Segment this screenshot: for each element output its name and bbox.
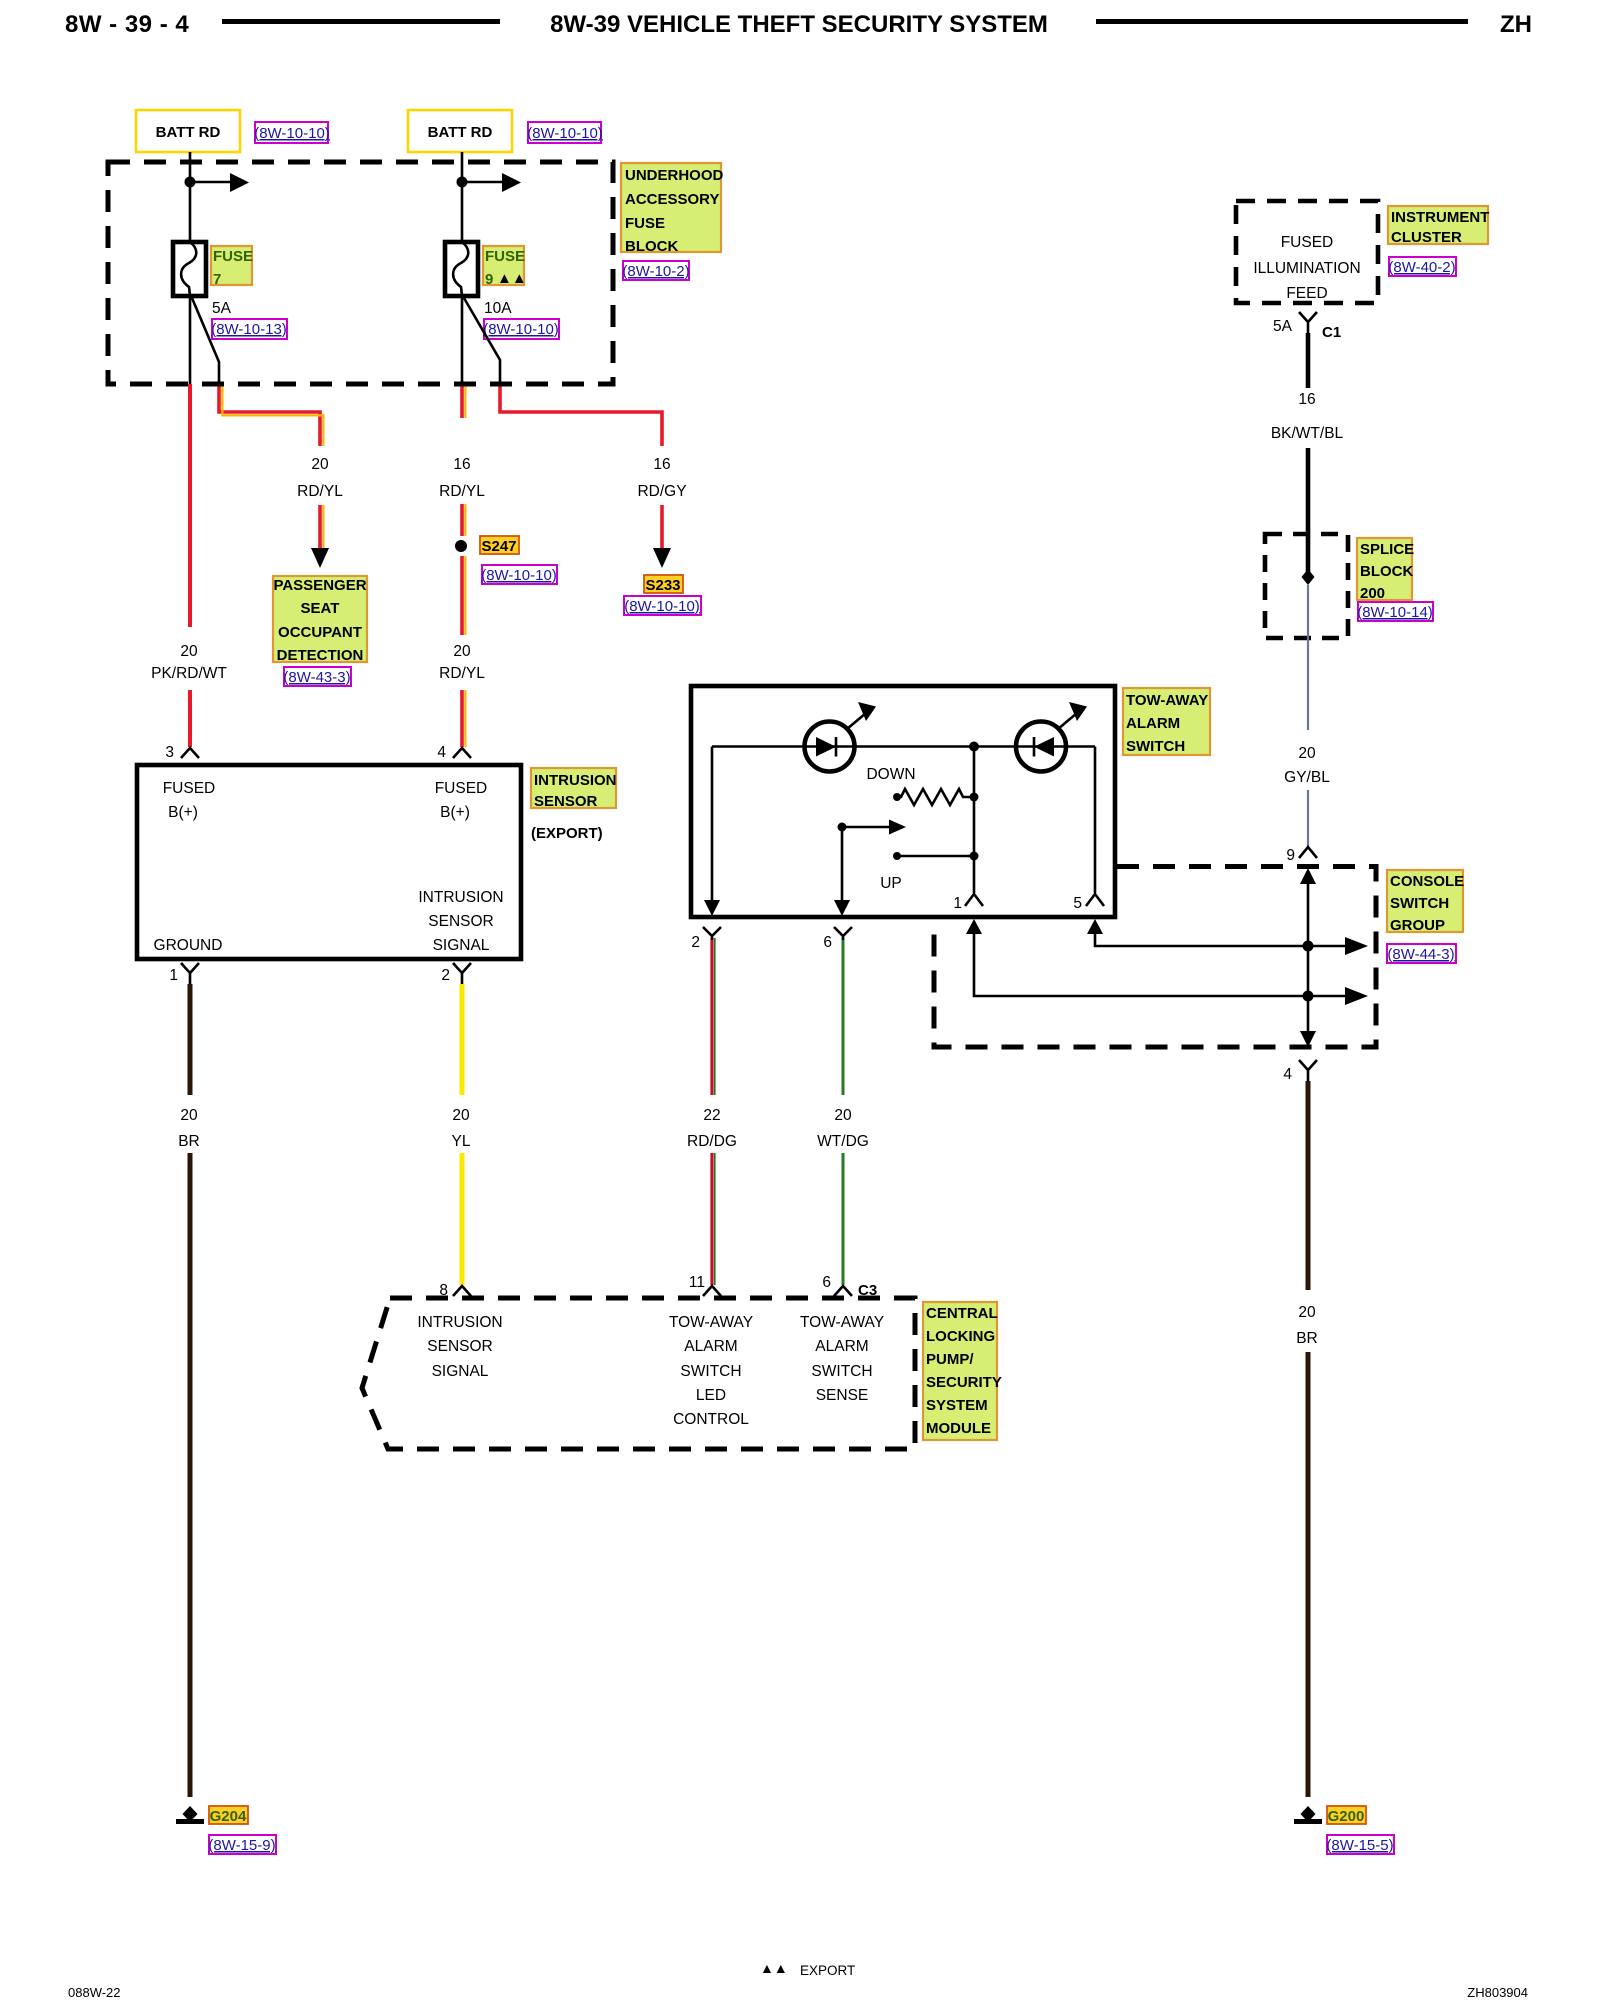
svg-text:BR: BR <box>178 1133 200 1150</box>
svg-text:9: 9 <box>485 271 493 288</box>
svg-text:7: 7 <box>213 271 221 288</box>
wire pin 9 entry arrow <box>1300 868 1316 1047</box>
svg-text:INTRUSION: INTRUSION <box>534 772 617 789</box>
svg-text:SENSOR: SENSOR <box>427 1338 492 1355</box>
op tow-away alarm switch S1 (box) <box>691 686 1115 917</box>
svg-text:UP: UP <box>880 875 902 892</box>
svg-text:4: 4 <box>1283 1066 1292 1083</box>
svg-text:088W-22: 088W-22 <box>68 1985 121 2000</box>
splice S247 junction dot <box>455 540 467 552</box>
svg-text:SWITCH: SWITCH <box>680 1363 741 1380</box>
junction dot at right batt wire <box>457 177 468 188</box>
node BATT RD (right feed) <box>408 110 512 152</box>
svg-text:CLUSTER: CLUSTER <box>1391 229 1462 246</box>
svg-text:CENTRAL: CENTRAL <box>926 1305 998 1322</box>
svg-text:GY/BL: GY/BL <box>1284 769 1330 786</box>
svg-text:(8W-10-14): (8W-10-14) <box>1357 604 1433 621</box>
node BATT RD (left feed) <box>136 110 240 152</box>
junction at bus and pin1 leg <box>969 742 979 752</box>
svg-text:SEAT: SEAT <box>301 600 340 617</box>
wire 20 BR (intrusion sensor ground to G204) <box>178 984 200 1797</box>
svg-text:PUMP/: PUMP/ <box>926 1351 974 1368</box>
svg-text:LOCKING: LOCKING <box>926 1328 995 1345</box>
svg-text:SIGNAL: SIGNAL <box>432 1363 489 1380</box>
svg-text:4: 4 <box>437 744 446 761</box>
pin label TOW-AWAY ALARM SWITCH LED CONTROL (module pin 11) <box>669 1314 753 1428</box>
wire 16 RD/GY (fuse 9 branch to splice S233) <box>500 384 687 568</box>
svg-text:LED: LED <box>696 1387 726 1404</box>
page header <box>65 11 1532 38</box>
svg-text:S233: S233 <box>645 577 680 594</box>
op intrusion sensor U1 (box) <box>137 765 521 959</box>
wire 22 RD/DG (tow-away pin 2 to module pin 11) <box>687 938 737 1285</box>
splice block 200 (dashed box) <box>1265 534 1348 638</box>
pin 11 connector (module) <box>689 1274 721 1296</box>
junction dot pin9/pin1 wire <box>1303 991 1314 1002</box>
svg-text:ZH: ZH <box>1500 11 1532 38</box>
svg-text:GROUND: GROUND <box>154 937 223 954</box>
svg-text:SECURITY: SECURITY <box>926 1374 1002 1391</box>
label FUSE 9 (export marker) <box>483 246 527 288</box>
link 8W-10-2 <box>622 261 689 280</box>
link 8W-10-10 (fuse 9) <box>483 319 559 339</box>
svg-text:PK/RD/WT: PK/RD/WT <box>151 665 227 682</box>
link 8W-10-14 <box>1357 602 1433 621</box>
svg-text:22: 22 <box>703 1107 720 1124</box>
ground G204 symbol <box>176 1806 204 1824</box>
svg-text:ZH803904: ZH803904 <box>1467 1985 1528 2000</box>
wire from right BATT RD into fuse block <box>461 152 464 242</box>
wire fuse 7 output branch <box>192 298 219 384</box>
wire 20 BR (console switch group to G200) <box>1296 1081 1318 1797</box>
pin label INTRUSION SENSOR SIGNAL (module pin 8) <box>417 1314 502 1380</box>
svg-text:SWITCH: SWITCH <box>1390 895 1449 912</box>
svg-text:INTRUSION: INTRUSION <box>418 889 503 906</box>
svg-text:SYSTEM: SYSTEM <box>926 1397 988 1414</box>
wire 16 RD/YL (fuse 9 to splice S247) <box>439 384 485 536</box>
svg-text:YL: YL <box>452 1133 471 1150</box>
svg-text:(EXPORT): (EXPORT) <box>531 825 603 842</box>
svg-text:5: 5 <box>1073 895 1082 912</box>
arrow branch (right batt feed to other circuits) <box>462 173 521 192</box>
svg-text:8W - 39 - 4: 8W - 39 - 4 <box>65 11 189 38</box>
wire 20 GY/BL (splice block to console switch group pin 9) <box>1284 585 1330 846</box>
svg-text:MODULE: MODULE <box>926 1420 991 1437</box>
junction dot at left batt wire <box>185 177 196 188</box>
svg-text:B(+): B(+) <box>168 804 198 821</box>
pin 1 connector (intrusion sensor) <box>169 963 199 984</box>
svg-text:▲▲: ▲▲ <box>760 1960 788 1976</box>
node FUSED ILLUMINATION FEED (instrument cluster, dashed box) <box>1236 201 1378 303</box>
pin 6 connector C3 (module) <box>822 1274 877 1299</box>
svg-text:FUSE: FUSE <box>485 248 525 265</box>
svg-text:UNDERHOOD: UNDERHOOD <box>625 167 724 184</box>
wire 20 RD/YL (S247 to intrusion sensor pin 4) <box>439 556 485 747</box>
svg-text:ILLUMINATION: ILLUMINATION <box>1253 260 1360 277</box>
link 8W-44-3 <box>1387 944 1456 963</box>
pin label TOW-AWAY ALARM SWITCH SENSE (module pin 6) <box>800 1314 884 1404</box>
pin 8 connector (module) <box>439 1282 471 1299</box>
splice junction diamond <box>1302 569 1315 585</box>
svg-text:BLOCK: BLOCK <box>625 238 678 255</box>
pin 1 connector (tow-away switch) <box>953 894 983 912</box>
underhood accessory fuse block border over wires <box>108 162 613 384</box>
svg-text:20: 20 <box>834 1107 852 1124</box>
pin 9 connector (console switch group) <box>1286 847 1317 864</box>
svg-text:6: 6 <box>823 934 832 951</box>
svg-text:INTRUSION: INTRUSION <box>417 1314 502 1331</box>
svg-text:(8W-10-10): (8W-10-10) <box>483 321 559 338</box>
svg-text:S247: S247 <box>481 538 516 555</box>
pin 5A connector C1 (instrument cluster) <box>1273 312 1341 341</box>
LED D2 (up indicator) <box>1016 702 1087 772</box>
console switch group (dashed enclosure) <box>934 867 1376 1048</box>
svg-text:20: 20 <box>453 643 471 660</box>
wire leg to pin 5 <box>1094 747 1097 894</box>
op central locking pump / security system module (dashed box) <box>362 1298 915 1449</box>
svg-text:3: 3 <box>165 744 174 761</box>
pin label INTRUSION SENSOR SIGNAL (pin 2) <box>418 889 503 954</box>
label CENTRAL LOCKING PUMP/ SECURITY SYSTEM MODULE <box>923 1302 1002 1440</box>
svg-text:20: 20 <box>1298 1304 1316 1321</box>
svg-text:OCCUPANT: OCCUPANT <box>278 624 362 641</box>
wire 20 RD/YL (fuse 7 to passenger seat occupant detection) <box>219 384 343 568</box>
pin label FUSED B(+) (pin 3) <box>163 780 216 821</box>
svg-text:200: 200 <box>1360 585 1385 602</box>
svg-text:CONTROL: CONTROL <box>673 1411 749 1428</box>
svg-text:1: 1 <box>169 967 178 984</box>
wire left leg to pin 2 <box>704 747 720 917</box>
svg-text:16: 16 <box>453 456 470 473</box>
wire internal bus of tow-away switch <box>712 745 1095 748</box>
svg-text:TOW-AWAY: TOW-AWAY <box>800 1314 884 1331</box>
svg-text:RD/YL: RD/YL <box>439 483 485 500</box>
svg-text:BATT RD: BATT RD <box>428 124 493 141</box>
link 8W-10-10 (S247) <box>481 565 557 584</box>
pin 2 connector (tow-away switch) <box>691 927 721 951</box>
label G200 <box>1327 1806 1366 1825</box>
svg-text:FEED: FEED <box>1286 285 1327 302</box>
svg-text:2: 2 <box>441 967 450 984</box>
svg-text:10A: 10A <box>484 300 512 317</box>
link 8W-40-2 <box>1388 257 1456 276</box>
pin 2 connector (intrusion sensor) <box>441 963 471 984</box>
pin 4 connector (intrusion sensor) <box>437 744 471 761</box>
svg-text:SENSOR: SENSOR <box>428 913 493 930</box>
svg-text:RD/YL: RD/YL <box>439 665 485 682</box>
svg-text:(8W-10-10): (8W-10-10) <box>527 125 603 142</box>
svg-text:BR: BR <box>1296 1330 1318 1347</box>
wire tow-away pin 1 to console (arrow) <box>966 919 1368 1005</box>
svg-text:(8W-10-13): (8W-10-13) <box>211 321 287 338</box>
svg-text:CONSOLE: CONSOLE <box>1390 873 1464 890</box>
svg-text:(8W-10-10): (8W-10-10) <box>481 567 557 584</box>
label UNDERHOOD ACCESSORY FUSE BLOCK <box>621 163 724 255</box>
svg-text:▲▲: ▲▲ <box>497 270 527 287</box>
svg-text:(8W-43-3): (8W-43-3) <box>283 669 350 686</box>
svg-text:(8W-10-10): (8W-10-10) <box>624 598 700 615</box>
svg-text:(8W-40-2): (8W-40-2) <box>1388 259 1455 276</box>
pin 5 connector (tow-away switch) <box>1073 894 1104 912</box>
resistor R1 <box>893 789 979 805</box>
svg-text:(8W-15-9): (8W-15-9) <box>208 1837 275 1854</box>
underhood accessory fuse block (dashed enclosure) <box>108 162 613 384</box>
svg-text:(8W-15-5): (8W-15-5) <box>1326 1837 1393 1854</box>
link 8W-43-3 <box>283 667 351 686</box>
svg-text:PASSENGER: PASSENGER <box>273 577 366 594</box>
label S247 <box>480 536 519 555</box>
svg-text:SENSE: SENSE <box>816 1387 869 1404</box>
wire fuse 7 output straight <box>189 296 192 384</box>
svg-text:INSTRUMENT: INSTRUMENT <box>1391 209 1489 226</box>
wire tow-away pin 5 to console (arrow) <box>1087 919 1368 955</box>
svg-text:SPLICE: SPLICE <box>1360 541 1414 558</box>
arrow branch (left batt feed to other circuits) <box>190 173 249 192</box>
svg-text:BK/WT/BL: BK/WT/BL <box>1271 425 1344 442</box>
wire leg to pin 1 <box>973 747 976 894</box>
svg-text:SIGNAL: SIGNAL <box>433 937 490 954</box>
label INTRUSION SENSOR <box>531 768 617 810</box>
svg-text:20: 20 <box>1298 745 1316 762</box>
wire from left BATT RD into fuse block <box>189 152 192 242</box>
svg-text:5A: 5A <box>212 300 232 317</box>
svg-text:20: 20 <box>452 1107 470 1124</box>
svg-text:20: 20 <box>180 643 198 660</box>
svg-text:EXPORT: EXPORT <box>800 1963 855 1978</box>
svg-text:6: 6 <box>822 1274 831 1291</box>
wire fuse 9 output straight <box>461 296 464 384</box>
svg-text:SENSOR: SENSOR <box>534 793 598 810</box>
svg-text:SWITCH: SWITCH <box>1126 738 1185 755</box>
link 8W-15-5 <box>1326 1835 1394 1854</box>
node PASSENGER SEAT OCCUPANT DETECTION <box>273 576 367 664</box>
svg-text:(8W-44-3): (8W-44-3) <box>1387 946 1454 963</box>
label FUSE 7 <box>211 246 253 288</box>
svg-text:ACCESSORY: ACCESSORY <box>625 191 719 208</box>
svg-text:C1: C1 <box>1322 324 1341 341</box>
wire fuse 9 output branch <box>464 298 500 384</box>
switch arm (tow-away switch wiper) <box>834 820 906 917</box>
pin 4 connector (console switch group) <box>1283 1060 1317 1083</box>
svg-text:2: 2 <box>691 934 700 951</box>
svg-text:B(+): B(+) <box>440 804 470 821</box>
svg-text:20: 20 <box>311 456 329 473</box>
svg-text:FUSE: FUSE <box>213 248 253 265</box>
svg-text:20: 20 <box>180 1107 198 1124</box>
label S233 <box>644 575 683 594</box>
LED D1 (down indicator) <box>805 702 877 772</box>
svg-text:RD/DG: RD/DG <box>687 1133 737 1150</box>
svg-text:ALARM: ALARM <box>684 1338 737 1355</box>
svg-text:WT/DG: WT/DG <box>817 1133 869 1150</box>
svg-text:9: 9 <box>1286 847 1295 864</box>
link 8W-10-10 (right BATT RD) <box>527 122 603 143</box>
ground G200 symbol <box>1294 1806 1322 1824</box>
svg-text:ALARM: ALARM <box>1126 715 1180 732</box>
svg-text:1: 1 <box>953 895 962 912</box>
svg-text:G204: G204 <box>210 1808 247 1825</box>
svg-text:FUSE: FUSE <box>625 215 665 232</box>
wire 16 BK/WT/BL (cluster to splice block 200) <box>1271 333 1344 572</box>
label TOW-AWAY ALARM SWITCH <box>1123 688 1210 755</box>
svg-text:FUSED: FUSED <box>435 780 488 797</box>
svg-text:BLOCK: BLOCK <box>1360 563 1413 580</box>
svg-text:G200: G200 <box>1328 1808 1365 1825</box>
svg-text:11: 11 <box>689 1274 705 1291</box>
svg-text:RD/GY: RD/GY <box>637 483 686 500</box>
switch contact UP <box>893 852 979 861</box>
fuse 7 <box>173 242 206 296</box>
svg-text:SWITCH: SWITCH <box>811 1363 872 1380</box>
link 8W-10-13 <box>211 319 287 339</box>
svg-text:FUSED: FUSED <box>1281 234 1334 251</box>
svg-text:DOWN: DOWN <box>866 766 915 783</box>
svg-text:(8W-10-10): (8W-10-10) <box>254 125 330 142</box>
svg-text:DETECTION: DETECTION <box>277 647 364 664</box>
pin 6 connector (tow-away switch) <box>823 927 852 951</box>
link 8W-15-9 <box>208 1835 276 1854</box>
label G204 <box>209 1806 248 1825</box>
label INSTRUMENT CLUSTER <box>1388 206 1489 246</box>
svg-text:16: 16 <box>1298 391 1315 408</box>
svg-text:BATT RD: BATT RD <box>156 124 221 141</box>
label SPLICE BLOCK 200 <box>1357 538 1414 602</box>
svg-text:TOW-AWAY: TOW-AWAY <box>1126 692 1208 709</box>
label CONSOLE SWITCH GROUP <box>1387 870 1464 934</box>
pin 3 connector (intrusion sensor) <box>165 744 199 761</box>
link 8W-10-10 (S233) <box>624 596 701 615</box>
wire 20 YL (intrusion sensor signal to module pin 8) <box>452 984 471 1285</box>
svg-text:8W-39 VEHICLE THEFT SECURITY S: 8W-39 VEHICLE THEFT SECURITY SYSTEM <box>550 11 1048 38</box>
wire 20 WT/DG (tow-away pin 6 to module pin 6) <box>817 938 869 1285</box>
svg-text:TOW-AWAY: TOW-AWAY <box>669 1314 753 1331</box>
svg-text:(8W-10-2): (8W-10-2) <box>622 263 689 280</box>
junction dot pin9/pin5 wire <box>1303 941 1314 952</box>
svg-text:GROUP: GROUP <box>1390 917 1445 934</box>
footer <box>68 1960 1528 2000</box>
svg-text:ALARM: ALARM <box>815 1338 868 1355</box>
wire 20 PK/RD/WT (fused B+ to intrusion sensor pin 3) <box>151 384 227 747</box>
pin label FUSED B(+) (pin 4) <box>435 780 488 821</box>
svg-text:RD/YL: RD/YL <box>297 483 343 500</box>
svg-text:FUSED: FUSED <box>163 780 216 797</box>
svg-text:16: 16 <box>653 456 670 473</box>
link 8W-10-10 (left BATT RD) <box>254 122 330 143</box>
fuse 9 <box>445 242 478 296</box>
svg-text:5A: 5A <box>1273 318 1293 335</box>
